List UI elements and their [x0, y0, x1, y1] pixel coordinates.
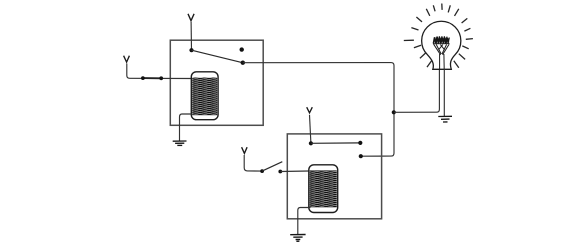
coil L1 [191, 72, 218, 120]
wire thicker segment on V input [143, 77, 161, 79]
wire V to switch S2 pivot [310, 115, 311, 144]
switch S2 pivot dot [309, 141, 313, 145]
ground G2 [438, 116, 452, 122]
wire node A to lamp [394, 70, 439, 113]
relay box U1 [170, 40, 263, 125]
wire switch S3 to coil L2 [280, 170, 309, 173]
lamp DS1 envelope [422, 21, 461, 69]
wire V to switch S3 pivot [244, 155, 262, 171]
node dot on input wire (left) [141, 76, 145, 80]
wire lamp DS1 to ground [443, 69, 445, 116]
switch S3 pivot dot [260, 169, 264, 173]
ground G3 [290, 235, 305, 242]
switch S2 arm [311, 142, 360, 144]
switch S2 arm end dot [358, 141, 362, 145]
wire relay U1 output to node A and down to relay U2 contact [243, 63, 394, 157]
wire coil L1 to ground [180, 114, 192, 141]
relay box U2 [287, 134, 381, 219]
switch S3 arm (open) [262, 162, 282, 171]
switch S1 pivot dot [189, 48, 193, 52]
label V (input to coil L2) [242, 147, 248, 153]
switch S2 fixed contact dot (lower) [359, 154, 363, 158]
node A junction dot [392, 110, 396, 114]
wire V input to coil L1 [127, 64, 192, 79]
lamp DS1 filament [433, 36, 450, 44]
lamp DS1 filament supports [434, 44, 450, 69]
switch S3 fixed contact dot [278, 170, 282, 174]
switch S1 arm end contact dot [241, 61, 245, 65]
lamp DS1 rays [404, 4, 473, 68]
label V (relay U1 common) [188, 14, 194, 21]
wire coil L2 to ground [298, 208, 311, 235]
switch S1 arm [192, 50, 243, 63]
switch S1 fixed contact dot (upper, open) [240, 47, 244, 51]
ground G1 [173, 141, 187, 145]
node dot on input wire (right) [159, 76, 163, 80]
coil L2 [309, 165, 338, 213]
wire V to switch S1 pivot [190, 22, 192, 50]
label V (relay U2 common) [307, 107, 313, 113]
label V (input to coil L1) [124, 56, 130, 62]
